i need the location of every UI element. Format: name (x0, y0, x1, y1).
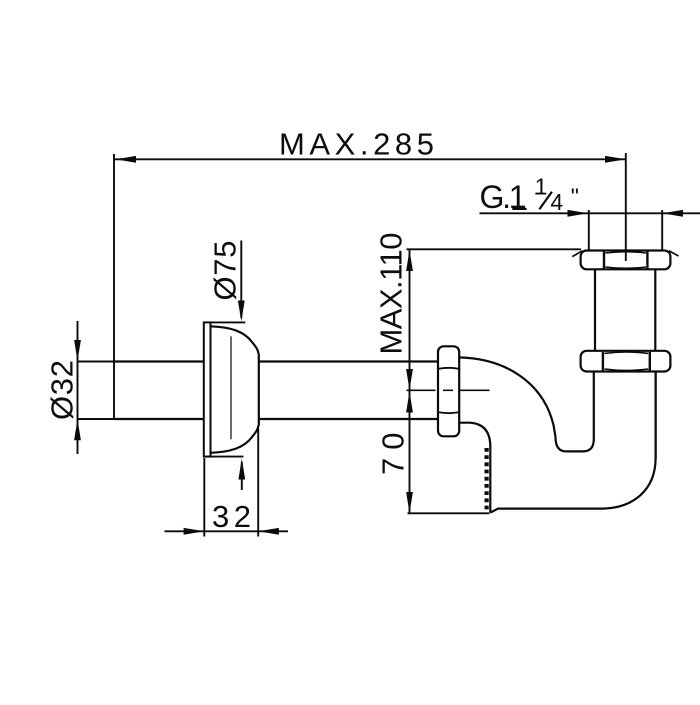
svg-text:1: 1 (535, 174, 548, 200)
G thread extension line left (588, 210, 590, 251)
vertical pipe left wall (below lock nut) (593, 372, 595, 374)
dimension 70 vertical line (409, 390, 411, 513)
dimension MAX.110 vertical line (409, 249, 411, 390)
70 bottom arrowhead (406, 492, 413, 513)
svg-text:70: 70 (375, 433, 410, 476)
svg-text:": " (571, 184, 579, 210)
svg-text:MAX.110: MAX.110 (374, 233, 409, 355)
serif bar of big 1 (512, 208, 526, 210)
slip nut lower facet line (439, 411, 459, 414)
trap hidden thread dashed strip (485, 448, 489, 511)
diam32 bottom arrowhead (74, 419, 81, 440)
MAX.110 top arrowhead (406, 250, 413, 271)
lock nut middle facet chamfer arcs (605, 352, 649, 353)
dimension 32 line (165, 530, 289, 532)
svg-text:Ø32: Ø32 (45, 360, 80, 420)
escutcheon inner cone line (230, 336, 232, 439)
lock nut facet line right (649, 352, 651, 371)
top nut middle facet chamfer arcs (606, 252, 647, 253)
top nut facet line right (646, 252, 648, 269)
dimension diam32 vertical line (77, 321, 79, 454)
dimension G.1 1/4 line (480, 212, 700, 214)
serif bar of superscript 1 (535, 193, 544, 195)
slip nut upper facet line (439, 367, 459, 370)
top coupling nut (581, 251, 671, 270)
svg-text:4: 4 (550, 189, 563, 215)
dimension 32 left extension line (203, 458, 205, 537)
dimension MAX.285 line (114, 158, 626, 160)
svg-text:Ø75: Ø75 (208, 241, 243, 301)
diam75 bottom leader line (241, 462, 243, 490)
horizontal pipe bottom line (114, 418, 204, 420)
trap outer left curve from slip nut (459, 423, 490, 513)
slip nut on horizontal pipe (438, 346, 459, 436)
diam75 top reference tick (209, 321, 245, 323)
dimension MAX.285 left arrowhead (115, 156, 136, 163)
escutcheon bell top curve (211, 326, 259, 353)
32 left arrowhead (184, 528, 205, 535)
diam75 bottom leader arrowhead (238, 459, 245, 480)
lock nut (581, 351, 671, 372)
escutcheon bell bottom curve (211, 426, 259, 453)
svg-text:32: 32 (212, 499, 251, 534)
32 right arrowhead (258, 528, 279, 535)
vertical pipe right wall (below lock nut) (654, 372, 656, 460)
svg-text:MAX.285: MAX.285 (279, 127, 434, 162)
top nut facet line left (603, 252, 605, 269)
G dimension left arrowhead (568, 210, 589, 217)
top nut chamfer tick left (572, 251, 582, 257)
G dimension right arrowhead (662, 210, 683, 217)
vertical pipe right wall (between nuts) (654, 269, 656, 350)
70 top arrowhead (406, 392, 413, 413)
MAX.110 bottom arrowhead (406, 369, 413, 390)
dimension 32 right extension line (257, 428, 259, 537)
trap inner top curve (elbow) (459, 357, 594, 451)
pipe centerline through slip nut (407, 389, 436, 391)
escutcheon wall plate (204, 322, 211, 456)
dimension MAX.285 right arrowhead (605, 156, 626, 163)
diam75 top leader line (240, 241, 242, 319)
top nut chamfer tick right (669, 251, 679, 256)
pipe bottom line extension to diam32 dim (78, 418, 115, 420)
diam75 bottom reference tick (205, 456, 243, 458)
dimension MAX.110 top reference line (407, 248, 582, 250)
diam75 top leader arrowhead (238, 301, 245, 322)
70 bottom reference line (408, 512, 490, 514)
centerline extension of vertical pipe (625, 153, 627, 261)
diam32 top arrowhead (74, 340, 81, 361)
vertical pipe left wall (between nuts) (594, 269, 596, 350)
lock nut facet line left (602, 352, 604, 371)
horizontal pipe top line (114, 360, 204, 362)
pipe top line extension to diam32 dim (78, 361, 115, 363)
escutcheon bell right edge (258, 354, 260, 426)
horizontal pipe left end cap (113, 362, 115, 420)
extension line left (wall end of pipe) (113, 154, 115, 362)
G thread extension line right (661, 210, 663, 251)
trap bottom outline (490, 372, 655, 513)
